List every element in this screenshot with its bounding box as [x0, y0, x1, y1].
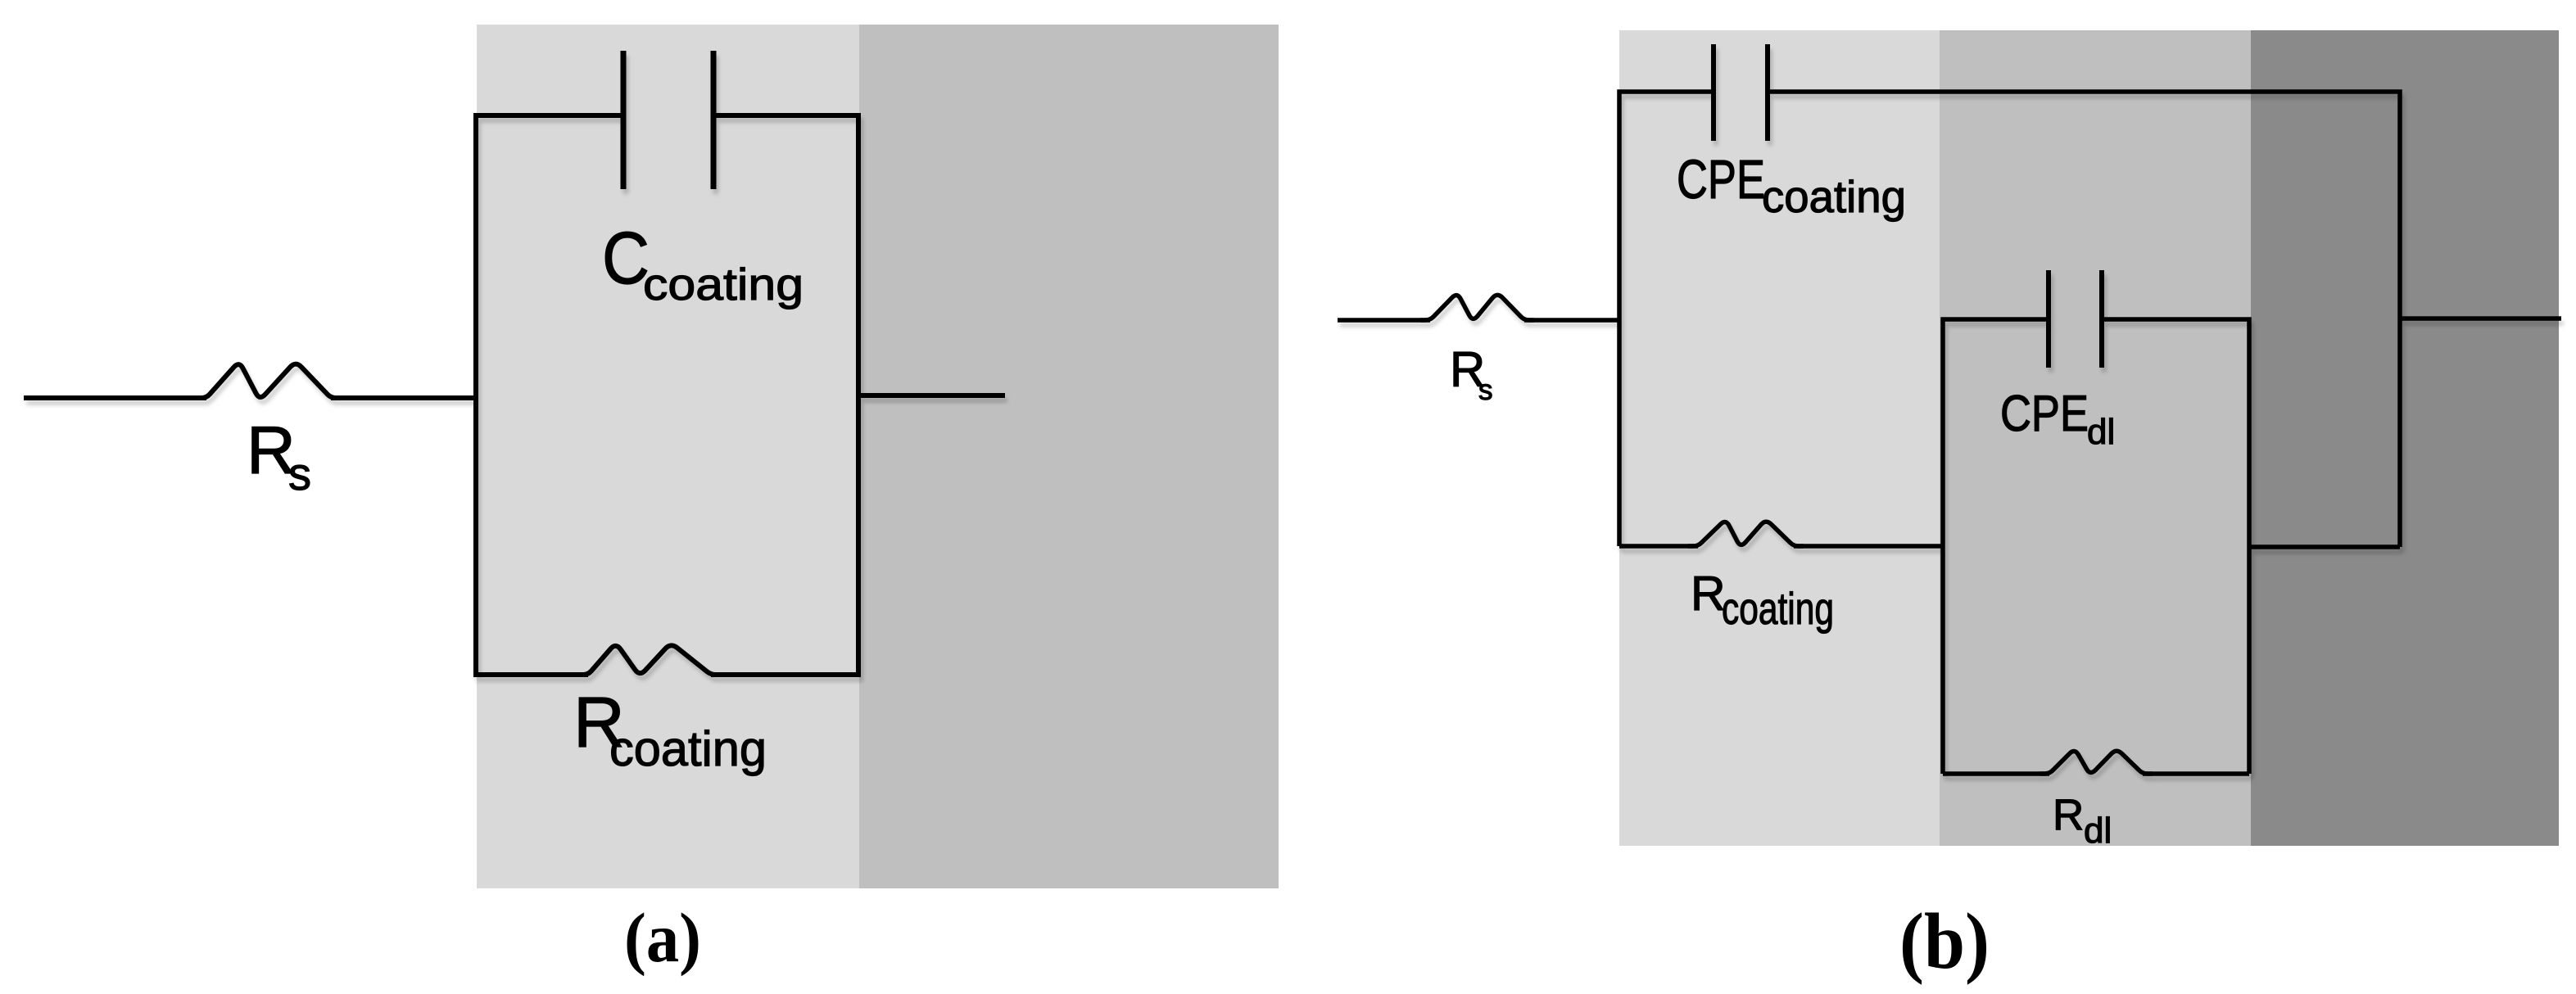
svg-text:(a): (a) — [624, 898, 701, 977]
svg-text:s: s — [1478, 374, 1493, 406]
resistor R_dl (b) — [2040, 751, 2153, 774]
svg-text:(b): (b) — [1899, 897, 1990, 985]
wire: outer bottom branch to inner box (b) — [1794, 544, 1943, 549]
panel (a) substrate layer background (medium gray) — [859, 25, 1279, 888]
svg-text:coating: coating — [1722, 583, 1834, 634]
svg-text:dl: dl — [2084, 811, 2112, 851]
svg-text:s: s — [288, 448, 311, 499]
capacitor CPE_coating left plate — [1711, 44, 1716, 141]
wire: inner box to outer right edge connector (b) — [2249, 544, 2400, 549]
resistor Rs (a) — [197, 364, 341, 398]
svg-text:coating: coating — [1762, 171, 1906, 222]
capacitor C_coating left plate — [621, 51, 627, 189]
wire: outer bottom branch left segment (b) — [1619, 544, 1698, 549]
parallel box (a): bottom branch left segment — [476, 672, 588, 677]
panel (a) coating layer background (light gray) — [477, 25, 859, 888]
panel (b) metal layer background (dark gray) — [2251, 30, 2559, 846]
wire: inner bottom branch right segment (b) — [2143, 771, 2249, 776]
capacitor CPE_coating right plate — [1765, 44, 1770, 141]
capacitor C_coating right plate — [711, 51, 717, 189]
svg-text:coating: coating — [643, 259, 804, 309]
inner box (b): left edge, top branch with capacitor gap, right edge — [1943, 319, 2249, 774]
parallel box (a): bottom branch right segment — [711, 672, 858, 677]
parallel box (a): left edge, top branch with capacitor gap, right edge — [476, 115, 858, 677]
svg-text:CPE: CPE — [2000, 386, 2089, 442]
wire: input lead (b) — [1338, 318, 1430, 323]
svg-text:R: R — [1691, 567, 1726, 621]
svg-text:R: R — [2053, 791, 2084, 839]
resistor R_coating (a) — [578, 645, 721, 675]
svg-text:CPE: CPE — [1677, 149, 1765, 210]
panel (b) coating layer background (light gray) — [1619, 30, 1940, 846]
capacitor CPE_dl left plate — [2046, 270, 2051, 368]
outer box (b): left edge, top branch with capacitor gap, right edge — [1619, 92, 2400, 547]
resistor Rs (b) — [1420, 295, 1534, 320]
wire: input lead (a) — [24, 395, 206, 400]
resistor R_coating (b) — [1688, 522, 1804, 546]
panel (b) intermediate layer background (medium gray) — [1940, 30, 2251, 846]
wire: Rs to node A (b) — [1524, 318, 1619, 323]
svg-text:dl: dl — [2087, 412, 2115, 452]
wire: output lead (b) — [2400, 316, 2561, 321]
capacitor CPE_dl right plate — [2099, 270, 2104, 368]
wire: Rs to node A (a) — [331, 395, 476, 400]
svg-text:coating: coating — [609, 721, 767, 776]
wire: inner bottom branch left segment (b) — [1943, 771, 2049, 776]
wire: output stub (a) — [858, 393, 1005, 398]
